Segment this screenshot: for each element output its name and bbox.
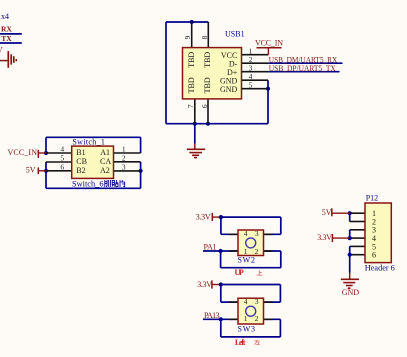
svg-text:B1: B1	[76, 148, 85, 157]
svg-text:TBD: TBD	[203, 77, 212, 93]
svg-text:A1: A1	[100, 148, 110, 157]
svg-text:4: 4	[244, 297, 248, 306]
svg-text:4: 4	[60, 145, 64, 154]
svg-text:VCC_IN: VCC_IN	[255, 38, 283, 47]
svg-text:9: 9	[183, 35, 192, 39]
svg-text:1: 1	[122, 145, 126, 154]
svg-text:GND: GND	[220, 85, 238, 94]
svg-text:CB: CB	[76, 157, 87, 166]
svg-text:3.3V: 3.3V	[317, 233, 332, 242]
svg-text:TX: TX	[1, 34, 12, 43]
svg-text:RX: RX	[1, 25, 12, 34]
svg-text:UP: UP	[235, 268, 244, 277]
svg-text:TBD: TBD	[187, 52, 196, 68]
svg-text:SW3: SW3	[238, 325, 255, 334]
svg-text:3: 3	[122, 163, 126, 172]
svg-text:SW2: SW2	[237, 255, 255, 264]
svg-text:5V: 5V	[26, 166, 36, 175]
svg-text:TBD: TBD	[187, 77, 196, 93]
svg-text:5: 5	[60, 154, 64, 163]
svg-text:CA: CA	[100, 157, 111, 166]
svg-text:P12: P12	[366, 194, 378, 203]
svg-text:6: 6	[372, 251, 376, 260]
svg-text:3: 3	[255, 229, 259, 238]
svg-text:USB_DP/UART5_TX: USB_DP/UART5_TX	[269, 64, 336, 73]
svg-text:5V: 5V	[0, 45, 3, 54]
svg-text:3.3V: 3.3V	[196, 213, 211, 222]
svg-text:Switch_1: Switch_1	[72, 138, 105, 147]
svg-text:2: 2	[255, 247, 259, 256]
svg-text:Switch_6: Switch_6	[72, 179, 104, 188]
svg-text:TBD: TBD	[203, 52, 212, 68]
svg-text:5: 5	[249, 81, 253, 90]
svg-text:3: 3	[255, 297, 259, 306]
svg-text:USB1: USB1	[225, 29, 245, 38]
svg-text:8: 8	[200, 35, 209, 39]
svg-text:Left: Left	[235, 338, 246, 347]
svg-text:6: 6	[60, 163, 64, 172]
svg-text:5V: 5V	[322, 208, 332, 217]
svg-text:4: 4	[244, 229, 248, 238]
svg-text:B2: B2	[76, 166, 85, 175]
svg-text:6: 6	[200, 104, 209, 108]
svg-text:A2: A2	[100, 166, 110, 175]
svg-text:2: 2	[255, 314, 259, 323]
svg-text:1x4: 1x4	[0, 12, 9, 21]
svg-text:VCC_IN: VCC_IN	[8, 148, 38, 157]
svg-text:2: 2	[122, 154, 126, 163]
svg-text:Header 6: Header 6	[365, 264, 395, 273]
svg-text:7: 7	[186, 104, 195, 108]
svg-text:3.3V: 3.3V	[197, 280, 212, 289]
svg-text:GND: GND	[342, 288, 360, 297]
